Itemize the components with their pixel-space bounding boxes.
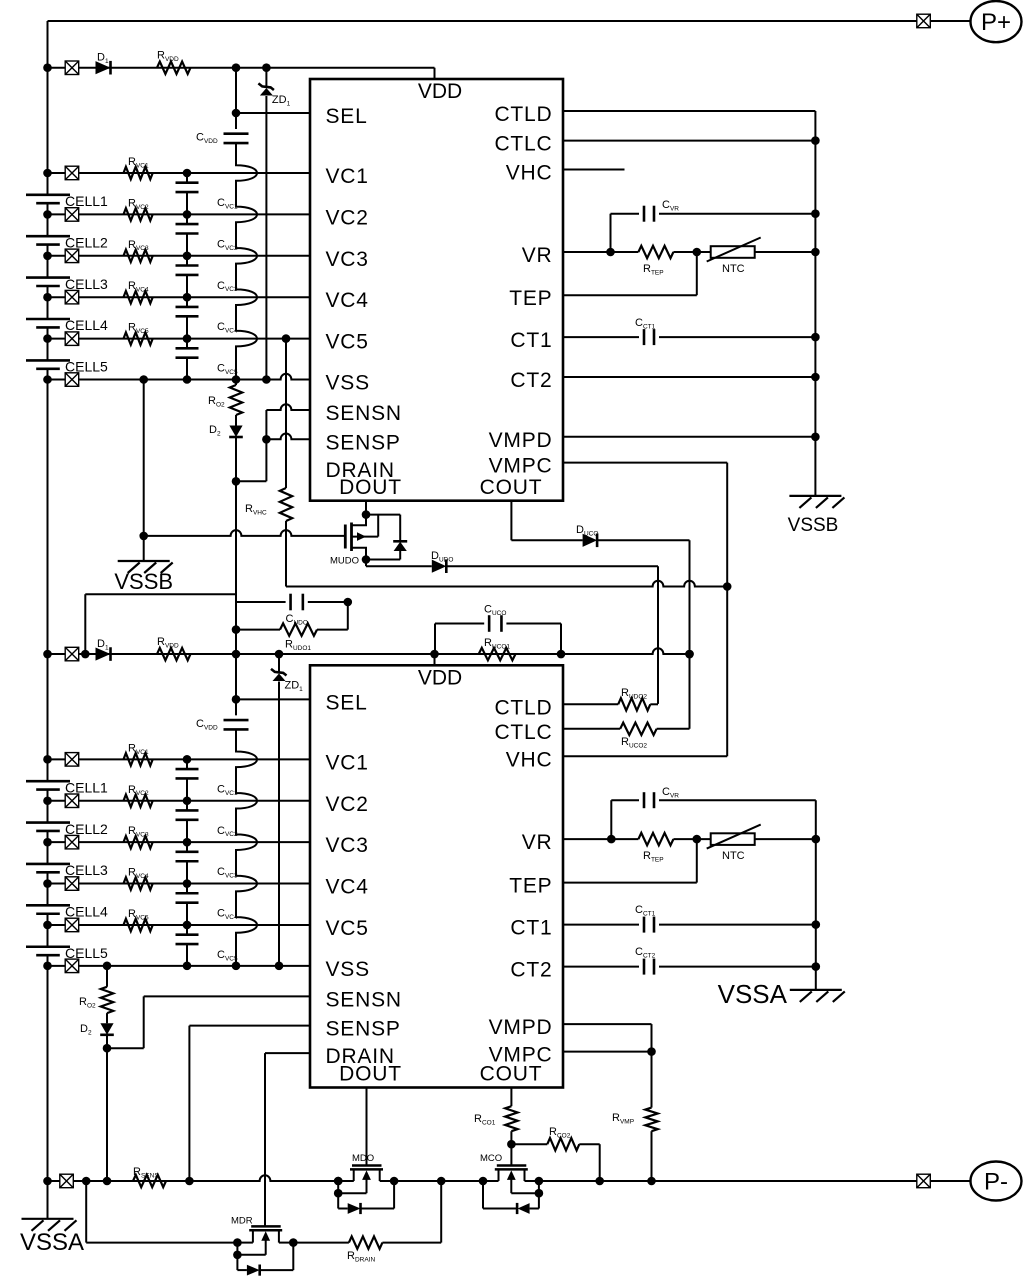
resistor RUDO2 bbox=[618, 698, 650, 710]
wire VMPC2 row bbox=[563, 1051, 652, 1053]
ground VSSB (section 1, right) bbox=[789, 496, 844, 508]
junctions VC1 row (section 1) bbox=[43, 169, 191, 178]
thermistor NTC (section 2) bbox=[707, 825, 761, 849]
ground VSSA (bottom left) bbox=[22, 1219, 77, 1231]
svg-text:NTC: NTC bbox=[722, 850, 745, 862]
junctions P- row left bbox=[43, 1177, 342, 1186]
label CVC5 (section 1) bbox=[217, 363, 238, 376]
label RVC1 (section 2) bbox=[128, 742, 149, 755]
terminal box cell tap VC1 (section 1) bbox=[65, 166, 79, 180]
resistor RVC3 (section 1) bbox=[124, 250, 153, 262]
transistor MUDO bbox=[345, 515, 378, 560]
junctions VSS row (section 2) bbox=[43, 962, 283, 971]
label RVC5 (section 1) bbox=[128, 322, 149, 335]
wire VHC1 stub bbox=[563, 169, 625, 171]
wire SENSN2 link bbox=[107, 996, 310, 1048]
svg-text:VHC: VHC bbox=[506, 748, 553, 771]
svg-text:VMPC: VMPC bbox=[489, 455, 553, 478]
wire SENSP row (section 1) bbox=[266, 434, 310, 440]
svg-text:VC5: VC5 bbox=[326, 917, 369, 940]
label MDO bbox=[352, 1153, 374, 1164]
op-amp/IC U2 (battery protection IC, section 2) bbox=[310, 665, 563, 1087]
label CELL2 (section 2) bbox=[65, 821, 108, 837]
resistor RUCO2 bbox=[620, 723, 656, 735]
svg-text:VR: VR bbox=[522, 244, 553, 267]
junctions MDR bbox=[233, 1238, 298, 1259]
wire VC5 to RVHC column bbox=[285, 339, 287, 488]
wire C_UCO left lead bbox=[435, 624, 484, 655]
svg-text:CELL4: CELL4 bbox=[65, 317, 108, 333]
resistor RVC2 (section 2) bbox=[124, 795, 153, 808]
wire RTEP to NTC (section 1) bbox=[673, 251, 815, 253]
wire VMPC1 row bbox=[563, 462, 727, 464]
wire P- row left (rail to MDO source) bbox=[48, 1175, 354, 1181]
wire VC2 tap row (section 1) bbox=[48, 213, 311, 215]
label RDRAIN bbox=[347, 1250, 375, 1263]
resistor RVC3 (section 2) bbox=[124, 836, 153, 848]
wire VC3 tap row (section 1) bbox=[48, 255, 311, 257]
resistor RTEP (section 2) bbox=[638, 833, 673, 845]
wire VMPC1 column to VHC2 bbox=[563, 463, 727, 757]
svg-text:CT2: CT2 bbox=[510, 959, 552, 982]
resistor RO2 (section 2) bbox=[101, 987, 113, 1013]
junctions on VDD row (section 2) bbox=[43, 650, 694, 659]
wire SENSP2 row and column bbox=[189, 1026, 310, 1181]
capacitor CUDO bbox=[291, 594, 303, 611]
wire row-585 (MUDO gate to VMPC1) bbox=[286, 581, 727, 587]
zener diode ZD1 (section 1) bbox=[258, 83, 274, 95]
wire right rail (section 1) bbox=[814, 111, 816, 496]
label CVC5 (section 2) bbox=[217, 949, 238, 962]
battery CELL1 (section 2) bbox=[26, 781, 70, 789]
resistor RVC1 (section 1) bbox=[124, 167, 153, 179]
diode DUDO bbox=[432, 559, 447, 573]
terminal P+ bbox=[971, 1, 1022, 42]
svg-text:CTLC: CTLC bbox=[494, 721, 552, 744]
label CVC4 (section 2) bbox=[217, 908, 238, 921]
label CELL2 (section 1) bbox=[65, 234, 108, 250]
junction MUDO drain node bbox=[362, 510, 371, 519]
wire RVHC bottom down to row-585 bbox=[285, 521, 287, 587]
battery CELL4 (section 1) bbox=[26, 319, 70, 327]
svg-text:MDO: MDO bbox=[352, 1153, 374, 1164]
resistor RVC4 (section 1) bbox=[124, 291, 153, 303]
wire CT1 row (section 2) bbox=[563, 924, 816, 926]
battery CELL3 (section 2) bbox=[26, 864, 70, 872]
wire RO2 leads (section 1) bbox=[235, 380, 237, 426]
wire VMPD2 row bbox=[563, 1024, 652, 1052]
transistor MDR bbox=[237, 1226, 293, 1275]
resistor RVC5 (section 2) bbox=[124, 919, 153, 931]
wire SENSN/SENSP link column (section 1) bbox=[236, 410, 266, 481]
terminal box on P+ lead bbox=[917, 14, 931, 28]
wire gate row (VSSB tap to MUDO gate) bbox=[144, 530, 346, 536]
resistor RCO1 bbox=[505, 1106, 517, 1131]
diode D2 (section 1) bbox=[229, 426, 243, 438]
wire RUCO2 to D_UCO column bbox=[657, 728, 690, 730]
wire VR2 row bbox=[563, 838, 638, 840]
battery CELL1 (section 1) bbox=[26, 195, 70, 203]
svg-text:VSS: VSS bbox=[326, 958, 370, 981]
svg-text:NTC: NTC bbox=[722, 263, 745, 275]
capacitor CVDD (section 2) bbox=[224, 720, 249, 729]
junctions VC2 row (section 1) bbox=[43, 210, 191, 219]
label CELL4 (section 2) bbox=[65, 904, 108, 920]
label CVC3 (section 1) bbox=[217, 280, 238, 293]
svg-text:VC5: VC5 bbox=[326, 331, 369, 354]
resistor RVDD (section 2) bbox=[157, 648, 191, 660]
svg-text:CTLD: CTLD bbox=[494, 696, 552, 719]
wire VC2 tap row (section 2) bbox=[48, 800, 311, 802]
junction R_DRAIN riser at P- row bbox=[437, 1177, 446, 1186]
diode DUCO bbox=[583, 534, 598, 548]
wire node column upper (section 2: from D2 down past RC bypass) bbox=[235, 444, 237, 655]
label RVC2 (section 2) bbox=[128, 784, 149, 797]
label CELL5 (section 2) bbox=[65, 945, 108, 961]
op-amp/IC U1 (battery protection IC, section 1) bbox=[310, 79, 563, 501]
zener diode ZD1 (section 2) bbox=[271, 669, 287, 681]
wire VC5 tap row (section 2) bbox=[48, 924, 311, 926]
resistor RO2 (section 1) bbox=[230, 385, 242, 415]
terminal box cell tap VC1 (section 2) bbox=[65, 753, 79, 767]
terminal P- bbox=[971, 1162, 1022, 1201]
label RVMP bbox=[612, 1112, 634, 1125]
label MUDO bbox=[330, 556, 359, 567]
label D1 (section 2) bbox=[97, 638, 109, 651]
label RVC4 (section 2) bbox=[128, 867, 149, 880]
label VSSA (right) bbox=[718, 979, 788, 1009]
wire D2 node down to bypass corner bbox=[235, 444, 237, 595]
svg-text:CT1: CT1 bbox=[510, 917, 552, 940]
label RVDD (section 1) bbox=[157, 50, 179, 63]
wire VSS row (section 2) bbox=[48, 965, 311, 967]
wire VC5 tap row (section 1) bbox=[48, 338, 311, 340]
label D2 (section 2) bbox=[80, 1023, 92, 1036]
wire R_UDO1 right lead bbox=[317, 629, 348, 631]
label RTEP (section 1) bbox=[643, 263, 664, 276]
svg-text:VSSB: VSSB bbox=[114, 569, 173, 594]
svg-text:VMPD: VMPD bbox=[489, 1016, 553, 1039]
capacitor CUCO bbox=[489, 615, 501, 632]
wire R_CO2 row bbox=[511, 1143, 547, 1145]
label CVC1 (section 2) bbox=[217, 783, 238, 796]
wire DOUT discharge row to D_UDO bbox=[366, 565, 432, 567]
wire SENSN row (section 1) bbox=[266, 404, 310, 410]
svg-text:SEL: SEL bbox=[326, 691, 368, 714]
wire D2 cathode down to bypass node (section 1) bbox=[235, 438, 237, 444]
label MDR bbox=[231, 1216, 253, 1227]
wire CTLD2 row bbox=[563, 703, 618, 705]
terminal box cell tap VC4 (section 1) bbox=[65, 290, 79, 304]
wire D_UCO to VDD2 node column bbox=[597, 540, 689, 729]
terminal box on P- lead (right) bbox=[917, 1174, 931, 1188]
wire COUT2 pin column bbox=[510, 1088, 512, 1166]
label CELL3 (section 2) bbox=[65, 862, 108, 878]
label RUDO2 bbox=[621, 687, 647, 700]
terminal box battery top tap (section 1) bbox=[65, 61, 79, 75]
label CVC2 (section 2) bbox=[217, 825, 238, 838]
wire VDD supply row (section 2) bbox=[48, 648, 690, 665]
wire bypass loop to D1 anode (section 2) bbox=[85, 594, 236, 654]
label CVR (section 1) bbox=[662, 199, 679, 212]
label CELL4 (section 1) bbox=[65, 317, 108, 333]
wire VC4 tap row (section 1) bbox=[48, 296, 311, 298]
junctions P- row right bbox=[595, 1177, 655, 1186]
wire C_VDD column lower (section 2) bbox=[236, 729, 257, 965]
resistor RUDO1 bbox=[280, 623, 317, 635]
svg-text:VC3: VC3 bbox=[326, 834, 369, 857]
junction row-585 at VMPC column bbox=[723, 582, 732, 591]
resistor RVC1 (section 2) bbox=[124, 753, 153, 766]
wire VDD supply row (section 1) bbox=[48, 68, 435, 79]
svg-text:SENSP: SENSP bbox=[326, 1018, 401, 1041]
resistor RUCO1 bbox=[479, 648, 516, 660]
battery CELL5 (section 1) bbox=[26, 360, 70, 368]
label RVHC bbox=[245, 503, 267, 516]
battery CELL4 (section 2) bbox=[26, 905, 70, 913]
wire VC4 tap row (section 2) bbox=[48, 883, 311, 885]
label RVC3 (section 1) bbox=[128, 239, 149, 252]
label RUDO1 bbox=[285, 639, 311, 652]
wire CTLC1 row bbox=[563, 140, 815, 142]
label RO2 (section 2) bbox=[79, 996, 96, 1009]
svg-text:VC3: VC3 bbox=[326, 248, 369, 271]
label RVC4 (section 1) bbox=[128, 280, 149, 293]
wire lower row from P- row bbox=[86, 1181, 238, 1243]
label RCO1 bbox=[474, 1113, 496, 1126]
wire D_UDO to R_UDO2 column bbox=[446, 566, 658, 704]
label CELL1 (section 1) bbox=[65, 193, 108, 209]
junctions VC4 row (section 1) bbox=[43, 293, 191, 302]
label RUCO2 bbox=[621, 736, 647, 749]
svg-text:TEP: TEP bbox=[509, 875, 552, 898]
wire right rail (section 2) bbox=[815, 800, 817, 990]
resistor RCO2 bbox=[547, 1138, 579, 1150]
svg-text:P-: P- bbox=[984, 1169, 1008, 1196]
wire left rail (battery stack backbone) bbox=[47, 21, 49, 1219]
wire D2 cathode (section 2) bbox=[106, 1036, 108, 1048]
wire RTEP to NTC (section 2) bbox=[673, 838, 815, 840]
body diode of MUDO bbox=[393, 515, 407, 560]
label CVC2 (section 1) bbox=[217, 238, 238, 251]
label CVC1 (section 1) bbox=[217, 197, 238, 210]
terminal box cell tap VC2 (section 1) bbox=[65, 208, 79, 222]
wire R_CO2 to P- row bbox=[579, 1144, 599, 1181]
wire CTLD1 row to right rail bbox=[563, 110, 815, 112]
label VSSB (right) bbox=[788, 515, 839, 536]
wire COUT row to D_UCO bbox=[511, 539, 582, 541]
svg-text:VC1: VC1 bbox=[326, 751, 369, 774]
label RVC1 (section 1) bbox=[128, 156, 149, 169]
wire RO2 leads (section 2) bbox=[106, 966, 108, 1023]
svg-text:TEP: TEP bbox=[509, 287, 552, 310]
junction SENSP link (section 1) bbox=[262, 435, 271, 444]
junction MUDO source bbox=[362, 555, 371, 564]
label RSENS bbox=[133, 1166, 159, 1179]
label CUCO bbox=[484, 604, 506, 617]
svg-text:VC4: VC4 bbox=[326, 876, 369, 899]
svg-text:VR: VR bbox=[522, 831, 553, 854]
junctions MCO bbox=[479, 1177, 544, 1198]
transistor MCO (charge FET) bbox=[483, 1166, 539, 1215]
diode D1 (section 2) bbox=[96, 647, 111, 661]
svg-text:CTLC: CTLC bbox=[494, 133, 552, 156]
wire COUT1 pin column bbox=[510, 501, 512, 541]
junctions VC5 row (section 1) bbox=[43, 334, 290, 343]
svg-text:SEL: SEL bbox=[326, 105, 368, 128]
terminal box on P- lead (left) bbox=[60, 1174, 74, 1188]
terminal box cell tap VC3 (section 1) bbox=[65, 249, 79, 263]
wire node column SEL segment (section 2) bbox=[235, 654, 237, 715]
junction D_UCO column at VDD2 row bbox=[685, 650, 694, 659]
svg-text:P+: P+ bbox=[981, 9, 1011, 36]
label CVR (section 2) bbox=[662, 786, 679, 799]
junction VR1 at C_VR branch bbox=[606, 248, 615, 257]
resistor RVMP bbox=[645, 1108, 657, 1132]
transistor MDO (discharge FET) bbox=[338, 1166, 394, 1215]
svg-text:VDD: VDD bbox=[418, 666, 462, 689]
wire DOUT1 pin column bbox=[365, 501, 367, 515]
battery CELL5 (section 2) bbox=[26, 947, 70, 955]
wire C_VDD column (section 1) bbox=[235, 68, 237, 129]
label RVC2 (section 1) bbox=[128, 197, 149, 210]
resistor RTEP (section 1) bbox=[638, 246, 673, 258]
junctions VC4 row (section 2) bbox=[43, 879, 191, 888]
terminal box cell bottom tap (section 1) bbox=[65, 373, 79, 387]
svg-text:VSSB: VSSB bbox=[788, 515, 839, 536]
wire VSSB column (section 1) bbox=[143, 380, 145, 562]
svg-text:CT2: CT2 bbox=[510, 369, 552, 392]
svg-text:VDD: VDD bbox=[418, 80, 462, 103]
wire R_VMP column bbox=[651, 1052, 653, 1181]
wire CTLC2 row bbox=[563, 728, 620, 730]
wire zener column (section 2) bbox=[278, 654, 280, 966]
junctions VC5 row (section 2) bbox=[43, 921, 191, 930]
label CCT1 (section 1) bbox=[635, 317, 656, 330]
resistor RVC4 (section 2) bbox=[124, 877, 153, 890]
wire C_UDO left lead bbox=[236, 601, 286, 603]
junctions VC2 row (section 2) bbox=[43, 796, 191, 805]
label RUCO1 bbox=[484, 637, 510, 650]
terminal box cell tap VC5 (section 2) bbox=[65, 918, 79, 932]
junctions MDO bbox=[334, 1177, 399, 1198]
svg-text:SENSP: SENSP bbox=[326, 431, 401, 454]
junctions VC1 row (section 2) bbox=[43, 755, 191, 764]
wire DOUT2 pin column to MDO gate bbox=[366, 1088, 368, 1166]
wire top rail to pack positive bbox=[48, 20, 971, 22]
capacitor column C_VC1..C_VC5 (section 1) bbox=[176, 173, 199, 380]
junctions VC3 row (section 2) bbox=[43, 838, 191, 847]
label RTEP (section 2) bbox=[643, 850, 664, 863]
svg-text:MCO: MCO bbox=[480, 1153, 502, 1164]
label CVC4 (section 1) bbox=[217, 321, 238, 334]
junction gate row at VSSB column bbox=[139, 532, 148, 541]
svg-text:SENSN: SENSN bbox=[326, 402, 402, 425]
junctions VC3 row (section 1) bbox=[43, 252, 191, 261]
terminal box battery top tap (section 2) bbox=[65, 647, 79, 661]
junctions on VDD row (section 1) bbox=[43, 63, 271, 72]
svg-text:CELL4: CELL4 bbox=[65, 904, 108, 920]
label D2 (section 1) bbox=[209, 424, 221, 437]
svg-text:SENSN: SENSN bbox=[326, 988, 402, 1011]
svg-text:VSSA: VSSA bbox=[20, 1229, 84, 1256]
svg-text:DOUT: DOUT bbox=[339, 1063, 402, 1086]
battery CELL3 (section 1) bbox=[26, 278, 70, 286]
svg-text:COUT: COUT bbox=[480, 476, 543, 499]
resistor RVDD (section 1) bbox=[157, 62, 191, 74]
wire DRAIN2 row and column bbox=[265, 1053, 310, 1226]
wire VC1 tap row (section 2) bbox=[48, 758, 311, 760]
capacitor CVDD (section 1) bbox=[224, 134, 249, 143]
label RVC5 (section 2) bbox=[128, 908, 149, 921]
junction MCO gate node bbox=[507, 1140, 516, 1149]
battery CELL2 (section 2) bbox=[26, 823, 70, 831]
diode D1 (section 1) bbox=[96, 61, 111, 75]
label RO2 (section 1) bbox=[208, 395, 225, 408]
svg-text:CELL3: CELL3 bbox=[65, 276, 108, 292]
wire R_DRAIN riser to P- row bbox=[382, 1181, 441, 1243]
junction VMPD/VMPC tie bbox=[647, 1047, 656, 1056]
svg-text:CELL2: CELL2 bbox=[65, 821, 108, 837]
label ZD1 (section 1) bbox=[272, 94, 291, 107]
label CCT1 (section 2) bbox=[635, 904, 656, 917]
wire C_VR branch (section 2) bbox=[611, 800, 816, 839]
diode D2 (section 2) bbox=[100, 1023, 114, 1035]
terminal box cell tap VC2 (section 2) bbox=[65, 794, 79, 808]
capacitor CCT2 (section 2) bbox=[644, 959, 654, 975]
resistor RVHC bbox=[280, 488, 292, 521]
svg-text:CELL3: CELL3 bbox=[65, 862, 108, 878]
svg-text:MDR: MDR bbox=[231, 1216, 253, 1227]
label DUCO bbox=[576, 524, 598, 537]
terminal box cell bottom tap (section 2) bbox=[65, 959, 79, 973]
resistor RDRAIN bbox=[349, 1236, 383, 1248]
wire P- row right (MCO to terminal) bbox=[540, 1180, 971, 1182]
junction SEL tap (section 1) bbox=[232, 109, 241, 118]
label RVDD (section 2) bbox=[157, 636, 179, 649]
wire CT1 row (section 1) bbox=[563, 336, 815, 338]
svg-text:CELL2: CELL2 bbox=[65, 234, 108, 250]
junctions right rail (section 2) bbox=[812, 835, 821, 971]
wire R_UDO1 left lead bbox=[236, 629, 280, 631]
wire D2 node to P- row (section 2) bbox=[106, 1048, 108, 1181]
battery CELL2 (section 1) bbox=[26, 236, 70, 244]
ground VSSA (section 2, right) bbox=[790, 990, 845, 1002]
capacitor CCT1 (section 2) bbox=[644, 917, 654, 933]
wire C_UCO right lead bbox=[506, 624, 561, 655]
terminal box cell tap VC3 (section 2) bbox=[65, 835, 79, 849]
wire MUDO source row bbox=[366, 560, 400, 567]
label VSSB (left) bbox=[114, 569, 173, 594]
label ZD1 (section 2) bbox=[285, 680, 304, 693]
svg-text:CELL1: CELL1 bbox=[65, 193, 108, 209]
svg-text:CT1: CT1 bbox=[510, 329, 552, 352]
wire CT2 row (section 2) bbox=[563, 966, 816, 968]
svg-text:VMPD: VMPD bbox=[489, 429, 553, 452]
wire SEL row (section 2) bbox=[236, 698, 310, 700]
wire C_UDO right lead bbox=[308, 602, 348, 630]
junction D2 node (section 2) bbox=[103, 1044, 112, 1053]
wire zener column (section 1) bbox=[265, 68, 267, 380]
wire SEL row (section 1) bbox=[236, 112, 310, 114]
resistor RVC2 (section 1) bbox=[124, 208, 153, 220]
ground VSSB (section 1, left) bbox=[118, 561, 173, 573]
capacitor column C_VC1..C_VC5 (section 2) bbox=[176, 759, 199, 966]
wire VSS row (section 1) bbox=[48, 374, 311, 380]
junctions VSS row (section 1) bbox=[43, 375, 271, 384]
label CELL5 (section 1) bbox=[65, 359, 108, 375]
junction C_UDO right node bbox=[344, 598, 353, 607]
